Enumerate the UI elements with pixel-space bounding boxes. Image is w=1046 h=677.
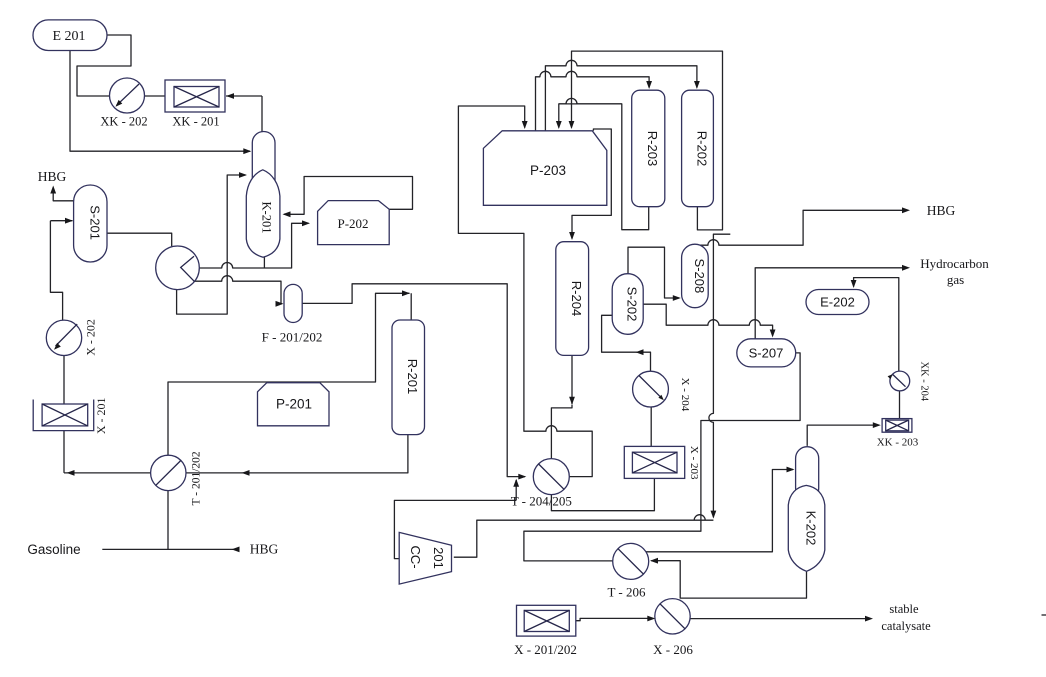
svg-text:XK - 203: XK - 203 <box>877 437 919 449</box>
exchanger T-201/202 <box>151 455 186 490</box>
pump XK-202 <box>110 78 145 113</box>
column K-201 wide section <box>246 170 280 257</box>
arrowhead into R-203 top <box>646 81 652 89</box>
arrowhead gasoline HBG <box>232 547 240 553</box>
wire X-201/202 to X-206 <box>576 618 654 620</box>
separator S-208 <box>682 244 709 308</box>
separator S-207 <box>737 339 796 367</box>
arrowhead into R-201 top <box>402 290 410 296</box>
svg-text:K-202: K-202 <box>803 511 818 546</box>
arrowhead into S-208 <box>673 295 681 301</box>
wire X-202 to X-201 <box>63 356 65 405</box>
arrowhead into P-202 <box>302 220 310 226</box>
wire R-201 bottom to T-201/202 <box>186 435 408 473</box>
svg-text:E-202: E-202 <box>820 295 855 310</box>
svg-text:S-207: S-207 <box>749 346 784 361</box>
wire stub and drop line B to compressor suction <box>709 234 730 517</box>
exchanger T-204/205 <box>533 459 569 495</box>
svg-text:HBG: HBG <box>250 542 279 557</box>
column K-202 neck <box>796 447 819 500</box>
svg-text:Hydrocarbon: Hydrocarbon <box>920 256 989 271</box>
svg-text:X - 201: X - 201 <box>94 397 108 434</box>
svg-text:X - 202: X - 202 <box>83 319 97 356</box>
edge dash artifact <box>1042 614 1046 616</box>
wire S-201 feed riser to X-202 <box>50 221 62 321</box>
arrowhead into XK-201 right <box>226 93 234 99</box>
wire S-207 to hydrocarbon gas outlet <box>755 268 906 339</box>
reactor R-203 <box>632 90 665 207</box>
wire T-204/205 bottom to X-203 bottom <box>551 478 654 510</box>
svg-text:X - 206: X - 206 <box>653 642 693 657</box>
svg-text:E 201: E 201 <box>52 29 85 44</box>
wire X-201 bottom <box>64 431 151 473</box>
svg-text:R-201: R-201 <box>405 359 420 394</box>
svg-text:P-202: P-202 <box>337 216 368 231</box>
svg-text:201: 201 <box>431 547 446 569</box>
wire T-204/205 to P-203 loop <box>458 106 592 477</box>
svg-text:CC-: CC- <box>408 545 423 568</box>
arrowhead into E-202 <box>851 280 857 288</box>
arrowhead into P-203 second <box>556 121 562 129</box>
arrowhead into P-203 third <box>569 121 575 129</box>
wire X-206 to stable catalysate outlet <box>690 618 868 620</box>
wire K-202 overhead to XK-203 <box>807 425 879 446</box>
svg-text:Gasoline: Gasoline <box>27 542 80 557</box>
reactor R-204 <box>556 242 589 356</box>
wire into S-201 left <box>50 220 72 222</box>
svg-text:T - 206: T - 206 <box>607 585 646 600</box>
cooler X-201/202 <box>517 605 576 636</box>
svg-text:R-204: R-204 <box>569 281 584 316</box>
arrowhead into P-203 first <box>522 121 528 129</box>
wire T4 bump segment <box>559 98 622 104</box>
arrowhead into K-201 wide left <box>239 172 247 178</box>
svg-text:X - 204: X - 204 <box>679 378 691 412</box>
arrowhead line B into suction <box>711 511 717 519</box>
svg-text:XK - 204: XK - 204 <box>919 361 930 401</box>
svg-text:HBG: HBG <box>927 203 956 218</box>
wire compressor suction line <box>454 515 714 558</box>
arrowhead into R-204 top <box>569 232 575 240</box>
arrowhead X-202 internal <box>54 343 61 350</box>
drum F-201/202 <box>284 284 302 322</box>
arrowhead into K-201 narrow left <box>243 148 251 154</box>
wire pump to P-202 with K-201 bottoms tee <box>199 223 308 268</box>
svg-text:F - 201/202: F - 201/202 <box>262 330 323 345</box>
furnace P-202 <box>318 201 390 245</box>
wire E-201 bottom to K-201 <box>70 51 250 152</box>
wire T-201/202 top to R-201 top <box>168 293 411 455</box>
svg-text:R-203: R-203 <box>645 131 660 166</box>
pump X-202 <box>46 320 81 355</box>
exchanger T-206 <box>613 543 649 579</box>
furnace P-201 <box>258 383 330 426</box>
arrowhead into X-206 left <box>647 616 655 622</box>
wire pump bottom to K-201 feed <box>177 175 246 314</box>
wire T-206 to K-202 neck <box>646 470 793 552</box>
arrowhead on X-204 to S-202 line <box>636 349 644 355</box>
wire R-204 bottom to T-204/205 <box>551 355 572 458</box>
svg-text:X - 203: X - 203 <box>688 446 700 480</box>
wire X-204 to X-203 <box>650 407 652 446</box>
reactor R-202 <box>682 90 714 207</box>
arrowhead XK-202 internal <box>116 100 123 107</box>
wire R-203 outlet to P-203 reheat <box>559 104 649 230</box>
cooler X-206 <box>655 599 690 634</box>
arrowhead into S-201 left <box>65 218 73 224</box>
wire XK-204 to XK-203 <box>899 391 901 419</box>
cooler XK-201 <box>165 80 225 112</box>
wire F-201/202 to T-204/205 <box>302 284 525 477</box>
wire XK-202 to XK-201 <box>145 95 166 97</box>
separator S-202 <box>612 274 643 335</box>
arrowhead stable catalysate <box>865 616 873 622</box>
wire P-202 to K-201 <box>284 177 413 215</box>
arrowhead into F-201/202 <box>276 301 284 307</box>
column K-201 narrow section <box>252 132 275 253</box>
arrowhead X-204 internal <box>658 395 663 400</box>
separator S-201 <box>74 185 107 262</box>
furnace P-203 <box>483 131 606 206</box>
arrowhead HBG right outlet <box>902 207 910 213</box>
arrowhead into K-201 right <box>283 211 291 217</box>
wire P-203 to R-202 <box>545 60 697 131</box>
reactor R-201 <box>392 320 425 435</box>
wire S-208 top to HBG outlet <box>695 210 906 245</box>
svg-text:S-202: S-202 <box>625 287 640 322</box>
pump XK-204 <box>890 371 910 391</box>
wire S-201 to HBG vent <box>53 188 73 201</box>
compressor CC-201 <box>399 532 451 584</box>
svg-text:gas: gas <box>947 272 964 287</box>
wire P-203 tab to R-204 <box>572 129 611 239</box>
svg-text:catalysate: catalysate <box>881 619 931 633</box>
arrowhead into T-206 right <box>650 558 658 564</box>
arrowhead into K-202 neck <box>787 467 795 473</box>
wire S-207 to T-206 via A <box>524 353 800 561</box>
wire T-201/202 bottom <box>167 491 169 550</box>
wire K-202 bottom to T-206 <box>651 561 806 598</box>
wire X-204 to S-202 <box>602 315 651 371</box>
arrowhead X-201 corner <box>67 470 75 476</box>
svg-text:P-203: P-203 <box>530 163 566 178</box>
wire R-202 outlet to P-203 recycle <box>572 51 723 230</box>
condenser XK-203 <box>882 419 912 433</box>
svg-text:R-202: R-202 <box>695 131 710 166</box>
wire P-203 to R-203 <box>536 71 650 131</box>
column K-202 wide section <box>788 485 825 571</box>
arrowhead hydrocarbon gas outlet <box>902 265 910 271</box>
arrowhead into XK-203 <box>873 422 881 428</box>
arrowhead into S-207 top <box>770 330 776 338</box>
wire pump to F-201/202 <box>195 276 282 304</box>
svg-text:S-201: S-201 <box>87 205 102 240</box>
pump circle with chevron <box>156 246 200 290</box>
svg-text:stable: stable <box>889 602 919 616</box>
arrowhead compressor discharge up <box>513 479 519 487</box>
air cooler X-201 <box>33 400 93 431</box>
wire Gasoline to HBG <box>102 548 233 550</box>
wire E-201 to XK-202 <box>77 35 131 96</box>
arrowhead on R-204 outlet <box>569 397 575 405</box>
svg-text:T - 204/205: T - 204/205 <box>511 494 572 509</box>
svg-text:XK - 201: XK - 201 <box>172 115 219 129</box>
vessel E-201 <box>33 20 107 51</box>
arrowhead into R-202 top <box>694 81 700 89</box>
svg-text:T - 201/202: T - 201/202 <box>191 451 203 505</box>
arrowhead HBG vent up <box>50 186 56 194</box>
wire S-202 top to S-208 <box>628 247 679 298</box>
wire S-201 to pump circle <box>107 233 172 246</box>
svg-text:P-201: P-201 <box>276 397 312 412</box>
wire S-202 to S-207 <box>643 304 772 335</box>
pump X-204 <box>633 371 669 407</box>
wire CC-201 discharge to T-204/205 <box>394 480 516 559</box>
arrowhead on T-201/202 feed <box>242 470 250 476</box>
svg-text:K-201: K-201 <box>260 202 274 234</box>
svg-text:XK - 202: XK - 202 <box>100 115 147 129</box>
wire K-201 top to XK-201 <box>226 96 262 132</box>
arrowhead into T-204/205 left <box>518 474 526 480</box>
tank E-202 <box>806 290 869 315</box>
svg-text:HBG: HBG <box>38 169 67 184</box>
cooler X-203 <box>624 446 684 478</box>
svg-text:X - 201/202: X - 201/202 <box>514 642 577 657</box>
svg-text:S-208: S-208 <box>692 259 707 294</box>
arrowhead XK-204 internal <box>888 374 893 379</box>
wire XK-204 to E-202 <box>854 278 899 372</box>
